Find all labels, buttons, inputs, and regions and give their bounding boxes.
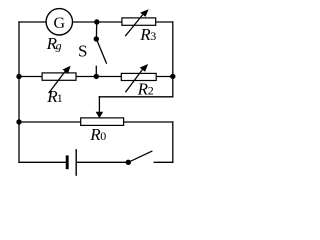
wire: middle left segment to R1 [19,76,42,78]
node: left bus / middle wire [16,74,21,79]
resistor R3 arrow [125,9,148,36]
resistor R1 box [42,73,76,80]
node: right bus / R2 wire [170,74,175,79]
wire: R0 right wire [124,121,173,123]
node: S pivot dot [94,36,99,41]
resistor R3 box [122,18,156,25]
wire: switch S2 fixed contact stub [154,161,173,163]
node: switch S2 pivot dot [126,160,131,165]
wire: wiper horizontal [99,96,172,98]
wire: right vertical upper (to wiper) [172,22,174,97]
svg-text:3: 3 [150,29,156,43]
svg-text:g: g [56,39,62,53]
node: top junction of S [94,19,99,24]
resistor R0 wiper arrow (down) [96,112,104,119]
switch S2 blade (open) [128,151,152,162]
svg-text:1: 1 [57,91,63,105]
switch S upper lead [95,22,97,39]
svg-text:S: S [78,41,87,60]
resistor R2 box [121,73,156,80]
wire: bottom left to battery [19,161,66,163]
wire: R0 left wire [19,121,81,123]
resistor R2 arrow [125,64,148,92]
node: middle wire junction below S [94,74,99,79]
battery: positive plate (long thin) [75,149,77,176]
wire: battery to switch S2 [77,161,129,163]
wire: top left segment to galvanometer [19,21,46,23]
wire: R2 right to right bus [156,76,173,78]
switch S lower contact stub [95,66,97,76]
wire: galvanometer to node A [73,21,123,23]
switch S blade (open) [96,39,106,63]
svg-text:G: G [54,15,66,32]
resistor R0 box [81,118,124,126]
wire: R1 to R2 segment [76,76,121,78]
resistor R1 arrow [49,66,71,93]
svg-text:0: 0 [100,129,106,143]
wire: left vertical bus [18,22,20,162]
galvanometer U: circle [46,9,72,35]
node: left bus / R0 wire [16,119,21,124]
svg-text:2: 2 [148,84,154,98]
battery: negative plate (short thick) [66,155,69,169]
wire: R3 right to top-right corner [156,21,173,23]
wire: right vertical lower [172,122,174,162]
wire: wiper vertical drop [98,97,100,113]
